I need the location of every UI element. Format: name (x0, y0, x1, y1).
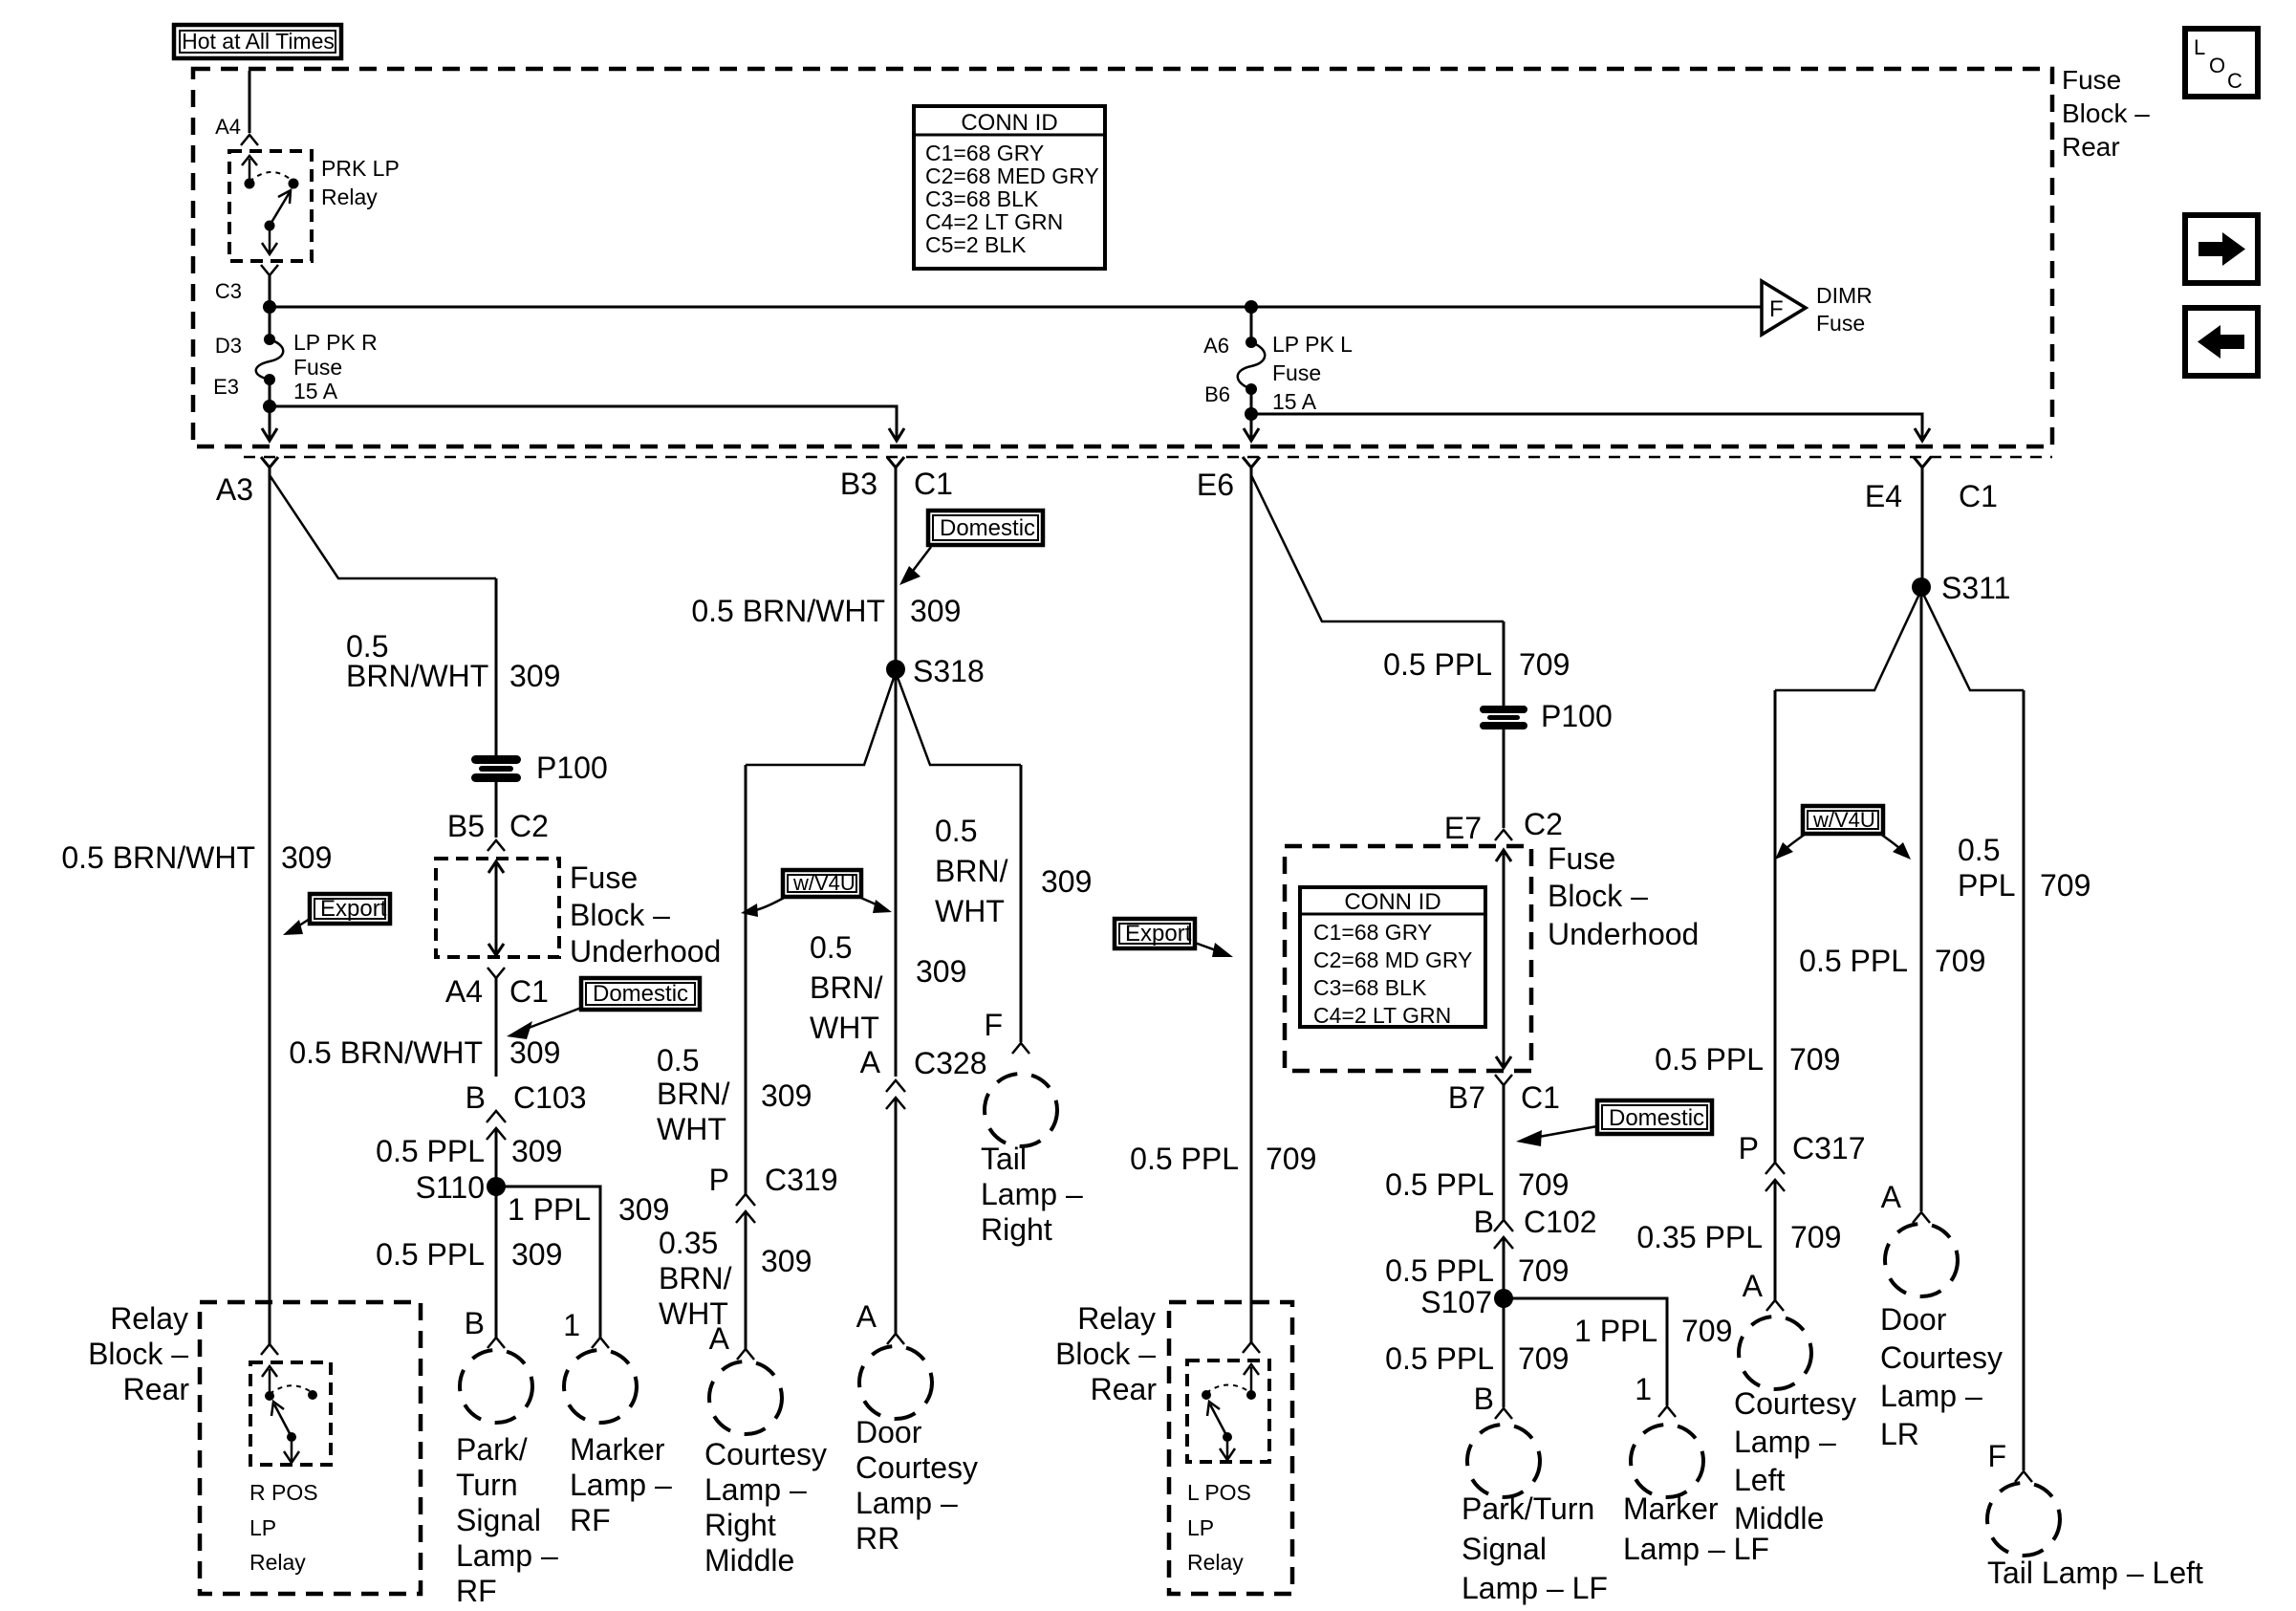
node S311 (1912, 577, 1931, 597)
Fuse Block - Rear dashed box (193, 69, 2052, 446)
svg-text:309: 309 (509, 1035, 560, 1070)
svg-text:Lamp – LF: Lamp – LF (1462, 1571, 1608, 1605)
fuse LP PK R (D3/E3) (213, 330, 378, 403)
wire E3 down to junction (269, 380, 271, 406)
right-arrow icon box (2185, 215, 2258, 283)
svg-text:309: 309 (761, 1244, 812, 1278)
svg-text:0.5 PPL: 0.5 PPL (376, 1237, 485, 1272)
wire C3 to junction (269, 275, 271, 339)
svg-text:709: 709 (1518, 1253, 1569, 1288)
svg-text:P100: P100 (1541, 699, 1613, 733)
svg-text:LP PK L: LP PK L (1272, 332, 1353, 357)
wire B3 down to S318 (895, 468, 898, 669)
svg-text:WHT: WHT (935, 894, 1005, 928)
svg-text:R POS: R POS (249, 1480, 318, 1505)
Relay Block - Rear dashed box (right) (1169, 1302, 1292, 1594)
wire B6 down to junction (1250, 389, 1253, 414)
svg-text:A: A (1881, 1180, 1902, 1214)
svg-text:0.5 BRN/WHT: 0.5 BRN/WHT (691, 594, 885, 628)
svg-text:P: P (1739, 1131, 1759, 1165)
wire E6 diagonal branch to E7 column (1251, 475, 1504, 621)
label box "Export" (left) (310, 894, 390, 924)
svg-text:C3=68 BLK: C3=68 BLK (925, 186, 1039, 211)
connector B3 (Y) (887, 457, 904, 468)
svg-text:0.5 PPL: 0.5 PPL (1130, 1142, 1239, 1176)
svg-text:Domestic: Domestic (593, 981, 688, 1007)
svg-text:Turn: Turn (456, 1468, 518, 1502)
lamp Park/Turn Signal Lamp - RF (dashed circle) (460, 1350, 532, 1423)
svg-text:Block –: Block – (88, 1337, 188, 1371)
svg-text:Park/: Park/ (456, 1432, 528, 1467)
svg-text:Block –: Block – (570, 898, 670, 932)
connector chevron park/turn LF (1495, 1408, 1512, 1419)
wire C319 down to courtesy right middle (745, 1211, 747, 1349)
svg-text:S110: S110 (416, 1170, 485, 1205)
svg-text:A: A (1743, 1269, 1764, 1303)
DIMR fuse triangle with F (1762, 281, 1806, 335)
node junction above A6 (1245, 300, 1258, 314)
connector C317 double chevron (1765, 1163, 1785, 1191)
label box "w/V4U" (left) (783, 870, 861, 897)
svg-text:Signal: Signal (1462, 1532, 1547, 1566)
svg-text:C1: C1 (914, 467, 953, 501)
svg-text:Export: Export (320, 896, 387, 922)
svg-text:L: L (2194, 35, 2205, 59)
lamp Tail Lamp - Left (dashed circle) (1987, 1483, 2060, 1556)
svg-text:Relay: Relay (321, 185, 378, 209)
arrow Domestic to B7 wire (1516, 1126, 1597, 1146)
svg-text:Park/Turn: Park/Turn (1462, 1491, 1594, 1526)
arrow Export to E6 wire (1195, 943, 1233, 957)
svg-text:B5: B5 (447, 809, 485, 843)
svg-text:Marker: Marker (1623, 1491, 1719, 1526)
svg-text:C103: C103 (513, 1080, 587, 1115)
node S110 (487, 1177, 506, 1196)
wire E4 down to S311 (1921, 468, 1924, 587)
svg-text:Block –: Block – (1055, 1337, 1156, 1371)
arrow Domestic to wire (507, 1008, 581, 1039)
svg-text:P100: P100 (536, 751, 608, 785)
connector chevron A4 (241, 135, 258, 145)
connector chevron door LR (1913, 1212, 1930, 1223)
svg-text:C2=68 MED GRY: C2=68 MED GRY (925, 163, 1099, 188)
svg-text:Relay: Relay (249, 1550, 306, 1575)
wire C3 horizontal to DIMR (270, 306, 1761, 309)
svg-text:15 A: 15 A (293, 379, 338, 403)
svg-text:Right: Right (981, 1212, 1052, 1247)
svg-text:Middle: Middle (1734, 1501, 1824, 1535)
svg-text:S107: S107 (1420, 1285, 1492, 1319)
svg-text:0.5: 0.5 (810, 930, 852, 965)
Fuse Block - Underhood dashed box (right) (1285, 846, 1531, 1071)
svg-text:C1: C1 (509, 974, 549, 1009)
grommet P100 (471, 751, 608, 785)
svg-text:Door: Door (856, 1415, 922, 1449)
node S107 (1494, 1289, 1513, 1308)
svg-text:0.5 PPL: 0.5 PPL (1385, 1253, 1494, 1288)
svg-text:309: 309 (761, 1078, 812, 1113)
svg-text:709: 709 (1681, 1314, 1732, 1348)
svg-text:0.5 PPL: 0.5 PPL (1385, 1341, 1494, 1376)
wire E6 drop with arrow (1250, 414, 1253, 438)
svg-text:Hot at All Times: Hot at All Times (182, 29, 335, 54)
grommet P100 (right) (1480, 699, 1613, 733)
Fuse Block - Underhood dashed box (left) (436, 859, 559, 957)
svg-text:WHT: WHT (657, 1112, 726, 1146)
label box "Domestic" (right) (1597, 1100, 1712, 1134)
svg-text:RR: RR (856, 1521, 899, 1556)
svg-text:1 PPL: 1 PPL (508, 1192, 591, 1227)
lamp Park/Turn Signal Lamp - LF (dashed circle) (1467, 1425, 1540, 1497)
svg-text:Fuse: Fuse (1548, 841, 1615, 876)
svg-text:C317: C317 (1792, 1131, 1866, 1165)
svg-text:Domestic: Domestic (940, 515, 1035, 541)
svg-text:Export: Export (1125, 921, 1192, 947)
svg-text:1 PPL: 1 PPL (1574, 1314, 1657, 1348)
svg-text:A: A (709, 1321, 730, 1356)
svg-text:Signal: Signal (456, 1503, 541, 1537)
connector E6 (Y) (1243, 457, 1260, 468)
svg-text:C5=2 BLK: C5=2 BLK (925, 232, 1027, 257)
wire S318 left branch to C319 column (746, 672, 896, 765)
svg-text:309: 309 (511, 1237, 562, 1272)
lamp Courtesy Lamp - Right Middle (dashed circle) (709, 1361, 782, 1434)
wire S110 branch to marker lamp column (496, 1186, 600, 1338)
svg-text:O: O (2209, 54, 2225, 77)
svg-text:B: B (1474, 1382, 1494, 1416)
relay L POS internals (1202, 1364, 1259, 1460)
wire A3 vertical main (269, 468, 271, 1344)
svg-text:0.5 PPL: 0.5 PPL (376, 1134, 485, 1168)
left-arrow icon box (2185, 308, 2258, 376)
svg-text:Tail Lamp – Left: Tail Lamp – Left (1987, 1556, 2203, 1590)
svg-text:0.5: 0.5 (935, 814, 977, 848)
svg-text:1: 1 (1635, 1372, 1652, 1406)
svg-text:A4: A4 (215, 115, 241, 139)
svg-text:C1=68 GRY: C1=68 GRY (1313, 920, 1432, 945)
svg-text:PPL: PPL (1958, 868, 2015, 903)
wire C102 to S107 (1503, 1237, 1505, 1407)
node S318 (886, 660, 905, 679)
svg-text:Left: Left (1734, 1463, 1785, 1497)
svg-text:BRN/: BRN/ (810, 970, 883, 1005)
svg-text:LP PK R: LP PK R (293, 330, 378, 355)
svg-text:309: 309 (281, 840, 332, 875)
connector C103 double chevron (487, 1111, 506, 1140)
label box "Hot at All Times" (174, 25, 341, 58)
svg-text:Courtesy: Courtesy (1734, 1386, 1856, 1421)
wire A3 drop with arrow (269, 406, 271, 438)
svg-text:Relay: Relay (110, 1301, 188, 1336)
svg-text:B6: B6 (1204, 382, 1230, 406)
wire through underhood block (right) with arrows (1496, 850, 1511, 1068)
wire B6 horizontal to E4 drop (1251, 414, 1922, 438)
svg-text:0.35 PPL: 0.35 PPL (1636, 1220, 1763, 1254)
label box "Export" (right) (1115, 919, 1195, 948)
svg-text:C4=2 LT GRN: C4=2 LT GRN (1313, 1003, 1451, 1028)
svg-text:A4: A4 (445, 974, 483, 1009)
svg-text:CONN ID: CONN ID (1344, 889, 1440, 915)
connector C319 double chevron (736, 1194, 755, 1223)
svg-text:709: 709 (1518, 1341, 1569, 1376)
Relay Block - Rear dashed box (left) (200, 1302, 421, 1594)
relay L POS LP dashed box (1187, 1361, 1269, 1462)
connector C102 double chevron (1494, 1220, 1513, 1249)
svg-text:0.5 PPL: 0.5 PPL (1655, 1042, 1764, 1077)
svg-text:BRN/WHT: BRN/WHT (346, 659, 488, 693)
svg-text:309: 309 (509, 659, 560, 693)
svg-text:RF: RF (570, 1503, 611, 1537)
svg-text:F: F (984, 1008, 1003, 1042)
arrow down at B3 (889, 428, 904, 441)
svg-text:A3: A3 (216, 472, 253, 507)
connector A3 (Y) (261, 457, 278, 468)
svg-text:S311: S311 (1941, 571, 2010, 605)
wire A3 diagonal branch to B5 column (270, 475, 496, 578)
svg-text:LP: LP (249, 1515, 276, 1540)
svg-text:C2: C2 (1524, 807, 1563, 841)
svg-text:Courtesy: Courtesy (704, 1437, 827, 1471)
node E3 junction (263, 400, 276, 413)
relay R POS internals (262, 1366, 317, 1463)
svg-text:709: 709 (1935, 944, 1985, 978)
wire A4 feed from top edge (249, 71, 251, 133)
svg-text:BRN/: BRN/ (659, 1261, 732, 1295)
relay R POS LP dashed box (250, 1362, 331, 1465)
svg-text:Lamp –: Lamp – (1734, 1425, 1836, 1459)
svg-text:B7: B7 (1448, 1080, 1485, 1115)
svg-text:709: 709 (2040, 868, 2090, 903)
svg-text:Tail: Tail (981, 1142, 1027, 1176)
svg-text:Door: Door (1880, 1302, 1947, 1337)
svg-text:B: B (466, 1080, 486, 1115)
svg-text:Fuse: Fuse (2062, 65, 2121, 95)
connector chevron park/turn RF (487, 1338, 505, 1348)
wire S107 branch to marker LF column (1504, 1298, 1667, 1405)
svg-text:C1=68 GRY: C1=68 GRY (925, 141, 1044, 165)
connector chevron marker RF (592, 1338, 609, 1348)
wire S311 left branch to courtesy left middle column (1775, 590, 1921, 690)
arrows w/V4U to wires (right) (1775, 834, 1911, 860)
label box "Domestic" (top middle) (928, 511, 1043, 545)
svg-text:0.5: 0.5 (1958, 833, 2000, 867)
svg-text:Lamp –: Lamp – (570, 1468, 672, 1502)
svg-text:C4=2 LT GRN: C4=2 LT GRN (925, 209, 1063, 234)
lamp Marker Lamp - LF (dashed circle) (1631, 1425, 1703, 1497)
lamp Door Courtesy Lamp - LR (dashed circle) (1885, 1224, 1958, 1296)
connector chevron B5 (487, 840, 505, 851)
arrows w/V4U to wires (741, 897, 892, 917)
svg-text:F: F (1769, 296, 1784, 322)
wire P100 to E7 connector (1503, 728, 1505, 828)
svg-text:709: 709 (1790, 1220, 1841, 1254)
connector chevron C3 (261, 265, 278, 275)
svg-text:0.35: 0.35 (659, 1226, 718, 1260)
svg-text:E6: E6 (1197, 468, 1234, 502)
arrow Domestic to B3 wire (899, 547, 931, 585)
svg-text:C2: C2 (509, 809, 549, 843)
svg-text:Lamp –: Lamp – (981, 1177, 1083, 1211)
svg-text:0.5 BRN/WHT: 0.5 BRN/WHT (289, 1035, 483, 1070)
svg-text:Right: Right (704, 1508, 776, 1542)
arrow down at E4 (1915, 428, 1930, 441)
svg-text:C319: C319 (765, 1163, 838, 1197)
wire E6 vertical main (1250, 468, 1253, 1342)
lamp Tail Lamp - Right (dashed circle) (985, 1074, 1057, 1146)
svg-text:709: 709 (1518, 1167, 1569, 1202)
svg-text:Lamp –: Lamp – (704, 1472, 807, 1507)
svg-text:309: 309 (618, 1192, 669, 1227)
CONN ID table (underhood) (1300, 887, 1485, 1028)
svg-text:Block –: Block – (1548, 879, 1648, 913)
svg-text:15 A: 15 A (1272, 389, 1317, 414)
connector chevron courtesy left middle (1766, 1300, 1784, 1311)
wire E3 horizontal to B3 drop (270, 406, 897, 438)
svg-text:CONN ID: CONN ID (961, 110, 1057, 136)
svg-text:Underhood: Underhood (570, 934, 721, 969)
wire C103 to S110 (495, 1128, 498, 1338)
wire C317 down to courtesy left middle (1774, 1180, 1777, 1300)
svg-text:S318: S318 (913, 654, 985, 688)
wire S311 right branch to tail left column (1921, 590, 2024, 690)
svg-text:Lamp – LF: Lamp – LF (1623, 1532, 1769, 1566)
svg-text:E4: E4 (1865, 479, 1902, 513)
svg-text:C2=68 MD GRY: C2=68 MD GRY (1313, 947, 1472, 972)
svg-text:WHT: WHT (810, 1011, 879, 1045)
svg-text:BRN/: BRN/ (935, 854, 1008, 888)
arrow Export to wire (283, 919, 310, 935)
svg-text:Fuse: Fuse (1816, 311, 1865, 336)
wire S318 middle continues (895, 669, 898, 1077)
svg-text:309: 309 (511, 1134, 562, 1168)
svg-text:C102: C102 (1524, 1205, 1597, 1239)
wire S318 right branch to tail lamp column (896, 672, 1021, 765)
svg-text:Lamp –: Lamp – (856, 1486, 958, 1520)
svg-text:1: 1 (563, 1308, 580, 1342)
svg-text:309: 309 (916, 954, 966, 989)
svg-text:C3=68 BLK: C3=68 BLK (1313, 975, 1427, 1000)
svg-text:Rear: Rear (1091, 1372, 1158, 1406)
label box "w/V4U" (right) (1803, 806, 1883, 834)
svg-text:Courtesy: Courtesy (1880, 1340, 2003, 1375)
wire through underhood block with arrows (488, 861, 504, 955)
wire S311 middle continues (door courtesy LR) (1920, 587, 1923, 1211)
svg-text:E3: E3 (213, 375, 239, 399)
svg-text:C: C (2227, 69, 2242, 93)
connector B7/C1 (Y) below box (1495, 1075, 1512, 1085)
connector chevron into L POS relay (1243, 1342, 1260, 1353)
svg-text:A: A (860, 1045, 881, 1079)
svg-text:709: 709 (1519, 647, 1570, 682)
connector chevron door RR (887, 1334, 904, 1344)
connector chevron tail left (2015, 1471, 2032, 1482)
svg-text:Fuse: Fuse (1272, 360, 1321, 385)
svg-text:A: A (856, 1299, 877, 1334)
svg-text:BRN/: BRN/ (657, 1077, 730, 1111)
svg-text:A6: A6 (1203, 334, 1229, 358)
svg-text:Relay: Relay (1077, 1301, 1156, 1336)
svg-text:0.5 BRN/WHT: 0.5 BRN/WHT (61, 840, 255, 875)
svg-text:Underhood: Underhood (1548, 917, 1699, 951)
lamp Marker Lamp - RF (dashed circle) (564, 1350, 637, 1423)
svg-text:Domestic: Domestic (1609, 1105, 1704, 1131)
svg-text:LR: LR (1880, 1417, 1919, 1451)
svg-text:0.5: 0.5 (657, 1043, 699, 1078)
wire P100 to B5 connector (495, 780, 498, 838)
CONN ID table (fuse block rear) (914, 106, 1105, 269)
svg-text:L POS: L POS (1187, 1480, 1251, 1505)
relay PRK LP contacts and coil arrow (242, 156, 299, 254)
svg-text:Lamp –: Lamp – (456, 1538, 558, 1573)
svg-text:709: 709 (1266, 1142, 1316, 1176)
wire C328 down to door courtesy RR (895, 1098, 898, 1334)
relay PRK LP dashed box (229, 151, 312, 261)
svg-text:Marker: Marker (570, 1432, 665, 1467)
lamp Door Courtesy Lamp - RR (dashed circle) (859, 1346, 932, 1419)
wire B5 column down to P100 (495, 578, 498, 755)
svg-text:Block –: Block – (2062, 98, 2150, 128)
svg-text:D3: D3 (215, 334, 242, 358)
svg-text:LP: LP (1187, 1515, 1214, 1540)
svg-text:C328: C328 (914, 1046, 987, 1080)
svg-text:RF: RF (456, 1574, 497, 1608)
connector chevron into R POS relay (261, 1344, 278, 1355)
label box "Domestic" (left) (581, 978, 700, 1010)
svg-text:309: 309 (1041, 864, 1092, 899)
svg-text:w/V4U: w/V4U (1812, 808, 1875, 832)
svg-text:Middle: Middle (704, 1543, 794, 1578)
svg-text:0.5 PPL: 0.5 PPL (1383, 647, 1492, 682)
thin dashed connector interface line (244, 456, 2052, 459)
node B6 junction (1245, 407, 1258, 421)
svg-text:Fuse: Fuse (293, 355, 342, 380)
svg-text:P: P (709, 1163, 729, 1197)
connector C328 double chevron (886, 1080, 905, 1109)
svg-text:Lamp –: Lamp – (1880, 1379, 1982, 1413)
svg-text:Fuse: Fuse (570, 860, 638, 895)
svg-text:B: B (1474, 1205, 1494, 1239)
svg-text:709: 709 (1789, 1042, 1840, 1077)
connector chevron marker LF (1658, 1406, 1676, 1417)
svg-text:E7: E7 (1444, 811, 1482, 845)
connector chevron E7 (1495, 830, 1512, 840)
svg-text:C1: C1 (1521, 1080, 1560, 1115)
connector A4/C1 (Y) below box (487, 968, 505, 978)
lamp Courtesy Lamp - Left Middle (dashed circle) (1739, 1317, 1811, 1389)
svg-text:C3: C3 (215, 279, 242, 303)
svg-text:B: B (465, 1306, 485, 1340)
svg-text:0.5 PPL: 0.5 PPL (1385, 1167, 1494, 1202)
connector chevron tail right (1012, 1043, 1029, 1054)
svg-text:309: 309 (910, 594, 961, 628)
svg-text:B3: B3 (840, 467, 877, 501)
fuse LP PK L (A6/B6) (1203, 307, 1353, 414)
svg-text:C1: C1 (1959, 479, 1998, 513)
connector E4 (Y) (1914, 457, 1931, 468)
svg-text:PRK LP: PRK LP (321, 156, 400, 181)
svg-text:0.5 PPL: 0.5 PPL (1799, 944, 1908, 978)
svg-text:DIMR: DIMR (1816, 283, 1873, 308)
connector chevron courtesy right middle (737, 1349, 754, 1360)
svg-text:Rear: Rear (123, 1372, 190, 1406)
svg-text:w/V4U: w/V4U (792, 871, 856, 895)
svg-text:F: F (1987, 1439, 2006, 1473)
node C3 junction (263, 300, 276, 314)
svg-text:Relay: Relay (1187, 1550, 1244, 1575)
LOC icon box (2185, 29, 2258, 97)
svg-text:Courtesy: Courtesy (856, 1450, 978, 1485)
svg-text:Rear: Rear (2062, 132, 2120, 162)
